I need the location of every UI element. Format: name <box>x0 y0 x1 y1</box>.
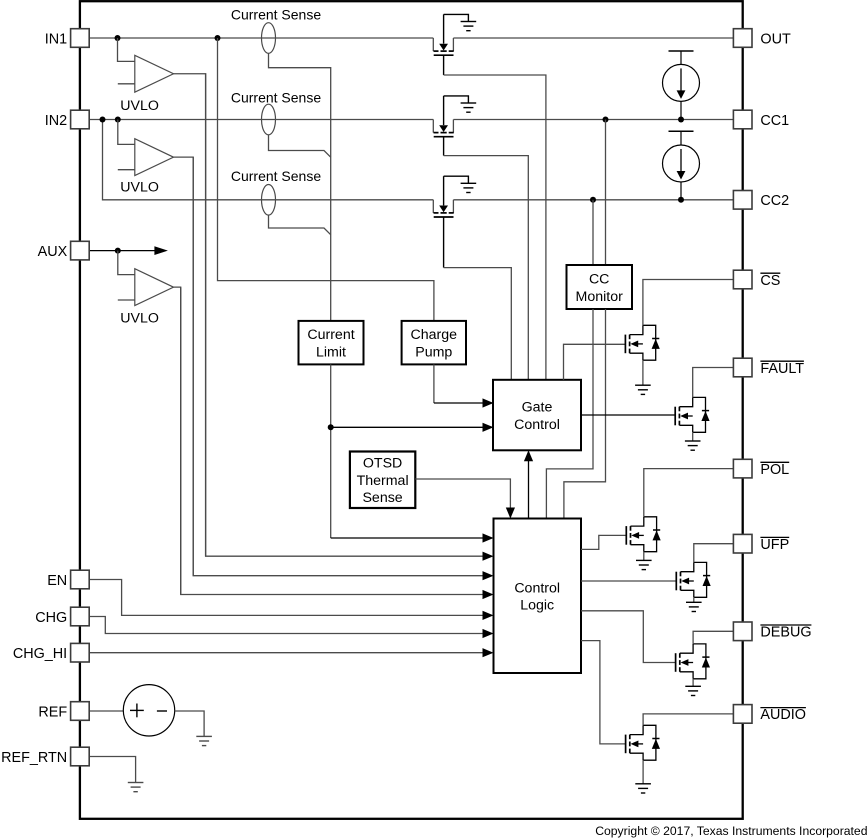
wire Control Logic to UFP FET gate <box>581 580 676 582</box>
block Gate Control <box>493 380 581 451</box>
MOSFET Q5 (FAULT) <box>675 397 709 432</box>
wire Q5 drain to FAULT pin <box>693 368 734 398</box>
svg-text:REF: REF <box>38 704 67 720</box>
svg-text:CC2: CC2 <box>760 193 789 209</box>
comparator UVLO3 <box>118 251 174 327</box>
block Charge Pump <box>402 321 466 365</box>
current sense CT2 <box>231 89 321 134</box>
device boundary <box>80 1 743 819</box>
svg-text:Copyright © 2017, Texas Instru: Copyright © 2017, Texas Instruments Inco… <box>595 824 867 838</box>
junction dot CC1 monitor tap <box>603 117 609 123</box>
junction dot CC2 monitor tap <box>590 197 596 203</box>
wire CC Monitor out 2 to Control Logic <box>564 309 606 519</box>
junction dot AUX <box>115 248 121 254</box>
ground <box>461 22 477 31</box>
block Current Limit <box>299 321 364 365</box>
svg-text:CHG: CHG <box>35 610 67 626</box>
current source I2 <box>663 131 700 200</box>
wire Q9 drain to AUDIO pin <box>643 714 733 725</box>
svg-text:CS: CS <box>760 273 780 289</box>
svg-text:Current Sense: Current Sense <box>231 89 321 105</box>
pin CC1 <box>733 110 789 129</box>
svg-text:UVLO: UVLO <box>120 98 159 114</box>
svg-text:FAULT: FAULT <box>760 361 804 377</box>
svg-text:AUDIO: AUDIO <box>760 707 806 723</box>
wire OTSD to Control Logic <box>415 479 515 519</box>
wire CC2 to CC Monitor <box>592 200 594 265</box>
pin CHG_HI <box>13 643 89 662</box>
svg-text:CC: CC <box>589 272 610 288</box>
wire UVLO2 to Control Logic <box>193 157 493 580</box>
svg-text:UFP: UFP <box>760 537 789 553</box>
wire UVLO3 to Control Logic <box>181 287 494 599</box>
junction dot <box>678 197 684 203</box>
wire Q3 gate to Gate Control <box>444 217 512 380</box>
svg-text:Monitor: Monitor <box>576 289 624 305</box>
svg-text:Sense: Sense <box>362 490 402 506</box>
wire V1 to ground <box>175 711 204 736</box>
svg-text:UVLO: UVLO <box>120 311 159 327</box>
svg-text:Control: Control <box>514 417 560 433</box>
pin REF_RTN <box>1 747 89 766</box>
wire IN1 to Charge Pump <box>218 38 434 321</box>
wire EN to Control Logic <box>89 580 493 621</box>
svg-text:Pump: Pump <box>415 345 452 361</box>
svg-text:Limit: Limit <box>316 345 346 361</box>
MOSFET Q4 (CS) <box>625 325 659 360</box>
wire current limit to Control Logic <box>331 533 494 542</box>
voltage source V1 (REF) <box>89 685 175 736</box>
wire CC2 rail right <box>453 199 733 201</box>
power MOSFET Q1 <box>433 14 468 55</box>
pin UFP <box>733 534 789 553</box>
wire CT1 to current limit <box>269 53 331 321</box>
wire CC Monitor out 1 to Control Logic <box>546 309 593 519</box>
svg-text:Control: Control <box>514 580 560 596</box>
svg-text:Logic: Logic <box>520 598 554 614</box>
pin AUDIO <box>733 705 806 724</box>
wire IN2 drop to CC2 rail <box>103 120 434 200</box>
wire Q1 gate to Gate Control <box>444 55 546 380</box>
ground <box>636 560 652 569</box>
wire source to ground <box>643 552 645 561</box>
wire UVLO1 output <box>174 74 206 556</box>
svg-text:CC1: CC1 <box>760 113 789 129</box>
svg-text:OUT: OUT <box>760 31 791 47</box>
MOSFET Q7 (UFP) <box>676 562 710 597</box>
ground <box>461 183 477 192</box>
ground <box>196 736 212 745</box>
ground <box>635 784 651 793</box>
svg-text:DEBUG: DEBUG <box>760 625 811 641</box>
comparator UVLO2 <box>118 120 174 196</box>
current sense CT1 <box>231 6 321 53</box>
pin OUT <box>733 29 791 48</box>
wire Control Logic to AUDIO FET gate <box>581 641 626 744</box>
svg-text:Current Sense: Current Sense <box>231 6 321 22</box>
wire Q8 drain to DEBUG pin <box>693 631 733 644</box>
wire source to ground <box>642 760 644 784</box>
power MOSFET Q2 <box>433 96 468 137</box>
comparator UVLO1 <box>118 38 174 114</box>
block OTSD Thermal Sense <box>350 452 415 509</box>
pin REF <box>38 702 89 721</box>
ground <box>635 385 651 394</box>
wire REF_RTN to ground <box>89 757 135 783</box>
svg-text:EN: EN <box>47 573 67 589</box>
junction dot IN2-CC2rail <box>100 117 106 123</box>
MOSFET Q6 (POL) <box>626 517 660 552</box>
junction dot IN1-UVLO1 <box>115 35 121 41</box>
wire UVLO3 output <box>174 287 181 594</box>
pin DEBUG <box>733 622 811 641</box>
wire Q7 drain to UFP pin <box>694 544 734 563</box>
wire CC1 to CC Monitor <box>605 120 607 266</box>
svg-text:REF_RTN: REF_RTN <box>1 750 67 766</box>
pin CS <box>733 270 780 289</box>
wire Q2 gate to Gate Control <box>444 137 529 380</box>
wire Q4 drain to CS pin <box>643 280 734 326</box>
pin POL <box>733 459 789 478</box>
wire Control Logic to Gate Control arrow <box>524 450 533 518</box>
wire Charge Pump to Gate Control <box>434 364 494 407</box>
svg-text:UVLO: UVLO <box>120 180 159 196</box>
pin FAULT <box>733 358 804 377</box>
svg-text:OTSD: OTSD <box>363 456 402 472</box>
wire Q6 drain to POL pin <box>644 469 734 517</box>
wire AUX stub arrow <box>89 246 168 255</box>
ground <box>685 686 701 695</box>
svg-text:AUX: AUX <box>38 244 68 260</box>
current sense CT3 <box>231 168 321 215</box>
wire source to ground <box>642 360 644 385</box>
junction dot <box>678 117 684 123</box>
ground <box>461 103 477 112</box>
wire CHG_HI to Control Logic <box>89 648 493 657</box>
svg-text:CHG_HI: CHG_HI <box>13 646 67 662</box>
wire Gate Control to FAULT FET gate <box>581 414 675 416</box>
wire Control Logic to POL FET gate <box>581 535 626 549</box>
pin CC2 <box>733 191 789 210</box>
wire UVLO1 to Control Logic <box>206 73 494 561</box>
junction dot current limit branch <box>328 424 334 430</box>
svg-text:Charge: Charge <box>411 327 458 343</box>
block Control Logic <box>494 519 582 674</box>
wire Control Logic to DEBUG FET gate <box>581 611 676 663</box>
wire source to ground <box>693 597 695 602</box>
svg-text:Gate: Gate <box>522 400 553 416</box>
junction dot IN2-UVLO2 <box>115 117 121 123</box>
wire source to ground <box>692 432 694 441</box>
junction dot IN1-charge-pump <box>215 35 221 41</box>
MOSFET Q9 (AUDIO) <box>626 725 660 760</box>
ground <box>686 602 702 611</box>
ground <box>685 441 701 450</box>
pin IN1 <box>45 29 89 48</box>
svg-text:IN1: IN1 <box>45 31 67 47</box>
wire Gate Control to CS FET gate <box>564 344 626 380</box>
copyright notice <box>595 824 867 838</box>
svg-text:Current Sense: Current Sense <box>231 168 321 184</box>
wire IN2 rail to CC1 <box>89 119 733 121</box>
pin IN2 <box>45 110 89 129</box>
block CC Monitor <box>567 265 633 309</box>
pin EN <box>47 570 89 589</box>
wire IN1 rail to OUT <box>89 37 733 39</box>
wire source to ground <box>692 679 694 687</box>
wire CHG to Control Logic <box>89 617 493 639</box>
ground <box>128 783 144 792</box>
svg-text:Current: Current <box>307 327 354 343</box>
pin CHG <box>35 607 89 626</box>
current source I1 <box>663 51 700 120</box>
pin AUX <box>38 241 90 260</box>
svg-text:POL: POL <box>760 462 789 478</box>
wire CT2 to current limit <box>269 135 331 157</box>
wire current limit to Gate Control <box>331 423 494 432</box>
wire Current Limit down <box>330 364 332 538</box>
power MOSFET Q3 <box>433 176 468 217</box>
wire CT3 to current limit <box>269 215 331 235</box>
svg-text:Thermal: Thermal <box>357 473 409 489</box>
wire UVLO2 output <box>174 157 194 576</box>
MOSFET Q8 (DEBUG) <box>676 644 710 679</box>
svg-text:IN2: IN2 <box>45 113 67 129</box>
